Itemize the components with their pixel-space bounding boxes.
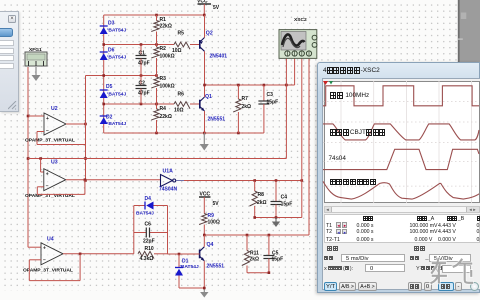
logic inverter U1A 74S04N: [159, 169, 177, 193]
wire U2 feedback loop: [37, 132, 86, 145]
wire U3 feedback loop: [37, 180, 85, 195]
power VCC top 5V: [197, 0, 220, 15]
wire Q4 collector row to scope D: [204, 234, 309, 236]
capacitor C3 15pF: [258, 85, 278, 133]
window content: [322, 78, 480, 290]
dialog close button: [8, 15, 16, 23]
resistor R1 22k: [151, 15, 172, 45]
transistor Q1 2N5551: [200, 94, 225, 123]
capacitor C1 47pF: [136, 45, 150, 76]
wire scope channel A drop: [285, 58, 287, 159]
diode D2: [100, 115, 127, 128]
diode D4: [134, 196, 168, 217]
ground at bottom rail: [200, 133, 209, 151]
resistor R5 10ohm: [172, 31, 199, 55]
buttons bottom left: [324, 282, 337, 291]
application background strip top right: [458, 0, 480, 63]
table header: [363, 216, 374, 222]
wire Q2 collector down: [204, 51, 206, 85]
scope gridlines: [340, 81, 342, 203]
node junction input column at input row: [27, 157, 30, 160]
row T2: [326, 229, 332, 235]
node junction input column at U2+: [27, 115, 30, 118]
wire Q4 collector up: [203, 235, 205, 247]
ground below XFG1: [32, 67, 41, 81]
wire row2 y44.5: [104, 44, 174, 46]
wire R8 C4 bottom bar: [255, 217, 302, 219]
resistor R8 2k: [249, 181, 266, 218]
left docked dialog fragment: [0, 11, 19, 112]
wire input row to scope A: [28, 158, 286, 160]
trace label C: [329, 155, 346, 162]
wire scope channel B drop: [294, 58, 296, 85]
controls: timebase group: [327, 246, 338, 264]
diode D6: [100, 48, 127, 61]
trace label D: [330, 179, 378, 186]
row T1: [326, 223, 332, 229]
ground below C4: [272, 218, 280, 228]
wire output bus vertical: [85, 76, 87, 181]
wire U1A output row: [176, 180, 276, 182]
diode D1: [175, 254, 199, 288]
wire Q2 emitter up: [204, 15, 206, 38]
wire left rail of D4 C6 R10 block: [133, 206, 135, 254]
wire D1 to Q4 emitter: [179, 287, 204, 289]
wire U4 feedback loop: [29, 254, 80, 281]
scope scrollbar: [324, 206, 480, 213]
node VCC rail junction: [203, 14, 206, 17]
resistor R4 22k: [151, 104, 172, 133]
wire input column to U4 plus: [28, 246, 41, 248]
dialog resize grip: [8, 101, 17, 110]
wire block to Q4 base: [168, 253, 200, 255]
wire row3 y75.5: [86, 75, 157, 77]
buttons bottom right: [408, 282, 422, 291]
row T2-T1: [326, 237, 340, 243]
transistor Q2 2N5401: [200, 31, 227, 60]
diode D3: [100, 21, 127, 35]
scope trace A input square wave: [323, 86, 479, 106]
wire XFG1 output down left column: [27, 67, 29, 247]
trace label B: [330, 129, 387, 136]
wire Q1 collector up: [204, 85, 206, 97]
capacitor C2 47pF: [136, 76, 150, 105]
ground below Q4: [200, 288, 208, 298]
resistor R9 100ohm: [199, 213, 220, 235]
wire U2 plus input: [28, 115, 44, 117]
wire bottom rail y133: [104, 132, 264, 134]
instrument XFG1 function generator: [25, 47, 47, 66]
dialog list rows: [0, 40, 14, 46]
op-amp U3: [25, 160, 75, 200]
capacitor C4 15pF: [271, 181, 293, 218]
wire scope channel C drop: [301, 58, 303, 218]
wire U3 output row: [66, 179, 161, 181]
resistor R3 100k: [151, 76, 174, 105]
wire scope channel D drop: [308, 58, 310, 235]
instrument XSC2 oscilloscope icon: [279, 17, 317, 58]
wire diode chain column: [103, 15, 105, 133]
wire row4 y104: [104, 103, 174, 105]
transistor Q4 2N5551: [200, 242, 225, 270]
wire U2 output to node: [66, 123, 86, 125]
capacitor C5 15pF: [263, 235, 283, 273]
wire U4 output row: [63, 253, 134, 255]
resistor R11 2k: [242, 235, 259, 273]
wire output row to scope B: [205, 84, 295, 86]
wire top rail y15: [104, 14, 205, 16]
resistor R7 2k: [233, 85, 251, 133]
wire right rail of block: [167, 206, 169, 255]
wire Q4 emitter down: [203, 261, 205, 288]
oscilloscope window XSC2: [317, 62, 480, 293]
wire Q1 emitter down: [204, 111, 206, 133]
scope graph: [324, 81, 480, 203]
resistor R6 10ohm: [174, 92, 199, 114]
measurement table: [324, 214, 480, 243]
controls: channel C group: [414, 246, 433, 264]
diode D5: [100, 84, 127, 98]
wire tap down to U3 plus: [40, 159, 42, 173]
dialog blue button: [0, 28, 13, 37]
capacitor C6 22pF: [134, 222, 168, 245]
wire R11 C5 bottom bar: [247, 272, 269, 274]
window title: [323, 67, 380, 74]
watermark zhihu: [429, 257, 475, 285]
op-amp U2: [25, 106, 75, 144]
power VCC mid 5V: [199, 192, 219, 214]
node tap for U3: [39, 157, 42, 160]
resistor R2 100k: [151, 45, 174, 76]
op-amp U4: [23, 237, 73, 274]
trace label A: [330, 92, 369, 99]
resistor R10 4.3k: [138, 246, 168, 262]
scope trigger markers: [323, 81, 328, 85]
